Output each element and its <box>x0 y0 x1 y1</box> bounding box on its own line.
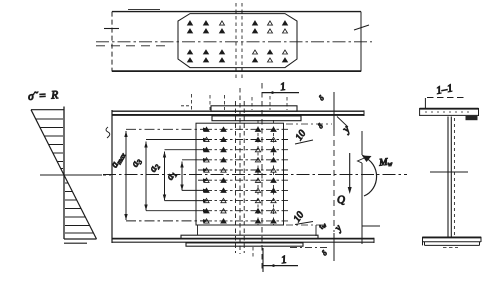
extension tick below bottom flange <box>252 247 254 259</box>
tick above bottom flange <box>315 225 317 236</box>
section top flange <box>420 108 479 110</box>
web plate top edge extension dashes <box>286 123 332 125</box>
stress diagram top hypotenuse <box>31 110 64 175</box>
plan view bolt group right <box>253 21 288 62</box>
dimension line a_1 <box>181 162 183 191</box>
svg-text:Q: Q <box>337 194 346 207</box>
plan view centerline <box>96 41 372 43</box>
svg-text:σ̃ = R: σ̃ = R <box>28 89 60 103</box>
small squiggle on left edge <box>106 127 110 138</box>
neutral axis of stress diagram <box>40 174 102 176</box>
bolt column axis lines (right group) <box>258 120 274 225</box>
diagonal leader to y label <box>337 117 348 128</box>
elevation joint line left <box>235 101 237 253</box>
web splice plate outline <box>196 123 284 225</box>
elevation joint centerline <box>239 88 241 254</box>
section web with splice plates <box>448 117 451 238</box>
section cut line 1-1 (vertical dashed) <box>261 83 263 272</box>
moment Mw curved arrow <box>364 157 377 196</box>
stress diagram top edge <box>31 109 64 111</box>
plan view beam top edge <box>112 11 361 13</box>
section cut bottom vertical <box>262 248 264 272</box>
bottom plate edge extension dashes <box>290 247 330 249</box>
plan view bolt group left <box>188 21 225 62</box>
beam neutral axis centerline <box>103 174 407 176</box>
extension line right of plate <box>333 92 335 130</box>
section bottom flange <box>423 236 482 238</box>
web plate left edge lower tick <box>197 225 199 236</box>
section top cover plate hidden line <box>427 97 467 99</box>
section inner plate patch <box>466 116 478 120</box>
stress diagram bottom underline <box>64 242 87 244</box>
top flange inner splice plate <box>212 116 301 121</box>
bottom flange outer splice plate <box>186 243 303 246</box>
plan view beam bottom edge <box>112 70 361 72</box>
section cut bottom flag <box>263 265 298 267</box>
web plate bottom edge extension dashes <box>286 224 326 226</box>
plan view centerline lower overtrace <box>96 45 168 47</box>
dimension line a_2 <box>164 152 166 201</box>
stress diagram top hatching <box>36 119 63 169</box>
stress diagram bottom hypotenuse <box>64 175 97 239</box>
bolt row leader lines with arrows <box>126 128 288 223</box>
plan view joint line left <box>235 3 237 79</box>
dimension line a_max <box>125 131 127 220</box>
section bottom cover plate <box>425 244 480 246</box>
elevation bottom flange <box>112 238 374 240</box>
elevation left beam end <box>111 110 113 243</box>
plan view beam right break edge <box>360 12 362 72</box>
plan view beam left break edge <box>111 12 113 72</box>
plan view flange cover plate outline <box>178 14 297 68</box>
web bolt grid <box>204 127 276 223</box>
stress diagram bottom hatching <box>65 183 94 233</box>
bottom flange inner splice plate <box>181 235 318 238</box>
shear force Q arrow <box>349 153 351 191</box>
extension ticks above top flange <box>192 94 288 110</box>
stress diagram vertical axis <box>63 107 65 240</box>
top flange outer splice plate <box>211 106 297 111</box>
section mid axis <box>430 171 468 173</box>
section cut top flag <box>262 92 299 94</box>
stress diagram bottom edge <box>64 238 97 240</box>
dimension line a_3 <box>145 142 147 211</box>
h dimension line with break <box>361 131 363 244</box>
elevation joint line right <box>243 101 245 253</box>
elevation top flange <box>112 110 364 112</box>
bracket over beam end <box>362 225 380 227</box>
plan view joint line right <box>241 3 243 79</box>
